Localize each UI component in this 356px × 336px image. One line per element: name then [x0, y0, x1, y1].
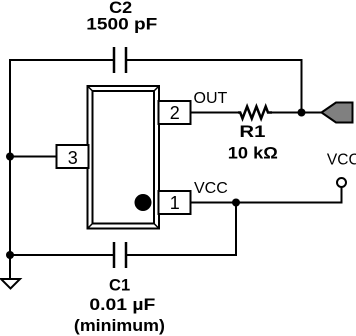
svg-text:C2: C2 — [109, 0, 132, 17]
terminal VCC — [337, 178, 346, 187]
svg-text:R1: R1 — [239, 123, 265, 141]
ground — [1, 279, 20, 289]
node junction ground — [6, 251, 14, 259]
pin 2 — [159, 101, 191, 124]
svg-text:10 kΩ: 10 kΩ — [228, 145, 278, 163]
resistor R1 — [238, 107, 272, 119]
svg-text:3: 3 — [68, 148, 78, 168]
node junction VCC — [232, 199, 240, 207]
wire pin1 to VCC terminal — [191, 202, 342, 204]
svg-text:(minimum): (minimum) — [74, 317, 165, 335]
pin 3 — [57, 145, 89, 168]
capacitor C1 — [114, 242, 126, 268]
wire bottom left (C1 left lead) — [10, 254, 114, 256]
svg-text:1: 1 — [170, 193, 180, 213]
wire stub to VCC circle — [341, 187, 343, 204]
svg-text:1500 pF: 1500 pF — [86, 16, 157, 34]
wire pin2 to R1 — [191, 112, 239, 114]
pin 1 — [159, 191, 191, 214]
wire pin3 to left rail — [10, 156, 57, 158]
op-amp U1 body — [88, 86, 160, 229]
svg-text:C1: C1 — [109, 277, 130, 295]
pin 1 indicator dot — [135, 194, 152, 211]
svg-text:VCC: VCC — [194, 180, 228, 197]
connector output flag — [322, 103, 353, 123]
svg-text:2: 2 — [170, 103, 180, 123]
wire junction down to C1 — [235, 203, 237, 257]
wire top left (C2 left lead) — [9, 59, 114, 61]
node junction OUT — [298, 109, 306, 117]
svg-text:VCC: VCC — [327, 152, 356, 169]
node junction pin3/rail — [6, 153, 14, 161]
capacitor C2 — [114, 47, 126, 73]
wire left rail — [9, 60, 11, 280]
wire bottom right (C1 right lead) — [126, 254, 237, 256]
wire top right (C2 right lead) — [126, 59, 302, 61]
wire R1 to node — [272, 112, 302, 114]
wire node to connector — [302, 112, 323, 114]
svg-text:OUT: OUT — [194, 90, 228, 107]
svg-text:0.01 µF: 0.01 µF — [89, 296, 155, 314]
wire right drop to OUT node — [301, 59, 303, 113]
